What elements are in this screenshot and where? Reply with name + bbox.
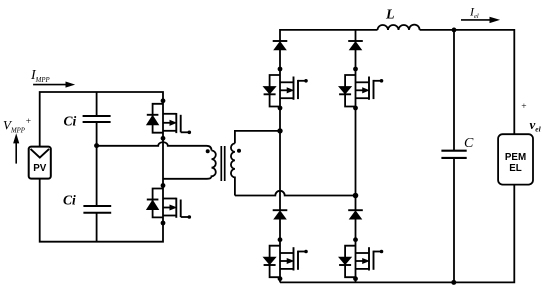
- svg-text:Iel: Iel: [469, 5, 479, 21]
- svg-text:vel: vel: [530, 117, 542, 134]
- svg-text:L: L: [385, 7, 395, 22]
- svg-text:IMPP: IMPP: [30, 68, 50, 84]
- svg-text:VMPP: VMPP: [3, 118, 25, 135]
- svg-text:PEM: PEM: [505, 152, 526, 163]
- svg-text:C: C: [464, 136, 474, 151]
- svg-text:+: +: [521, 102, 526, 112]
- svg-text:Ci: Ci: [64, 113, 77, 128]
- svg-text:+: +: [26, 117, 31, 127]
- svg-text:Ci: Ci: [63, 193, 76, 208]
- svg-text:PV: PV: [33, 163, 47, 174]
- svg-text:EL: EL: [509, 163, 522, 174]
